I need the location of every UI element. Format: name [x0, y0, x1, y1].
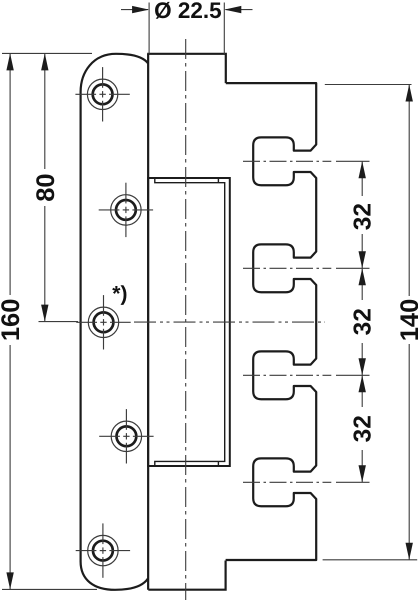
knuckle top step: [147, 54, 226, 83]
arrow 32c down: [359, 465, 366, 482]
screw hole 1: [87, 79, 117, 109]
hinge leaf plate right edge: [147, 54, 149, 590]
frame part profile with four tabs: [226, 83, 317, 560]
hinge leaf bottom cap curve: [81, 562, 148, 590]
tab 1 centerline: [243, 160, 331, 162]
arrow diameter left-pointing: [224, 6, 241, 13]
horizontal mid phantom centerline: [134, 321, 325, 323]
svg-text:*): *): [112, 283, 127, 306]
arrow 32c up: [359, 375, 366, 392]
dimension line 32 middle: [361, 268, 363, 375]
arrow 140 down: [406, 543, 413, 560]
hinge leaf plate left edge: [79, 92, 81, 562]
arrow diameter right-pointing: [132, 6, 149, 13]
hinge arm outer rectangle: [148, 178, 230, 466]
extension line bottom-left (leaf bottom): [2, 588, 97, 590]
extension line ph4 right: [336, 481, 370, 483]
vertical centerline: [185, 39, 187, 600]
extension line 140 top: [325, 84, 412, 86]
extension line 140 bottom: [323, 559, 418, 561]
leader line diameter left: [121, 9, 148, 11]
svg-text:140: 140: [396, 299, 418, 342]
screw hole 5: [88, 535, 118, 565]
arrow 32a down: [359, 251, 366, 268]
svg-text:Ø 22.5: Ø 22.5: [154, 0, 222, 23]
extension line ph2 right: [336, 267, 370, 269]
svg-text:32: 32: [349, 415, 376, 442]
screw hole 3: [88, 307, 118, 337]
tab 4 centerline: [243, 481, 331, 483]
screw hole 2: [111, 195, 141, 225]
leader line diameter right: [226, 9, 253, 11]
extension line diameter right: [223, 3, 225, 55]
extension line ph3 right: [336, 374, 370, 376]
arrow 160 up: [6, 53, 13, 70]
extension line ph1 right: [336, 160, 370, 162]
screw hole 4: [111, 421, 141, 451]
svg-text:32: 32: [349, 203, 376, 230]
svg-text:80: 80: [32, 173, 60, 201]
arrow 32b down: [359, 358, 366, 375]
dimension line 32 lower: [361, 375, 363, 482]
knuckle bottom step: [148, 561, 225, 590]
tab 3 centerline: [243, 374, 331, 376]
tab 2 centerline: [243, 267, 331, 269]
dimension line 80: [44, 53, 46, 321]
arrow 140 up: [406, 85, 413, 102]
hinge arm inner plate lines: [155, 178, 225, 466]
arrow 32b up: [359, 268, 366, 285]
inner plate joint tick top: [217, 178, 219, 183]
dimension line 160: [9, 53, 11, 589]
extension line mid-left (hole 3 level): [39, 321, 79, 323]
inner plate joint tick bottom: [217, 461, 219, 466]
arrow 80 up: [41, 53, 48, 70]
extension line top-left (leaf top): [2, 52, 92, 54]
arrow 32a up: [359, 161, 366, 178]
arrow 80 down: [41, 305, 48, 322]
extension line diameter left: [148, 3, 150, 55]
arrow 160 down: [6, 572, 13, 589]
svg-text:32: 32: [349, 308, 376, 335]
dimension line 140: [408, 85, 410, 560]
dimension line 32 upper: [361, 161, 363, 268]
svg-text:160: 160: [0, 299, 25, 342]
hinge leaf top cap curve: [81, 54, 149, 92]
